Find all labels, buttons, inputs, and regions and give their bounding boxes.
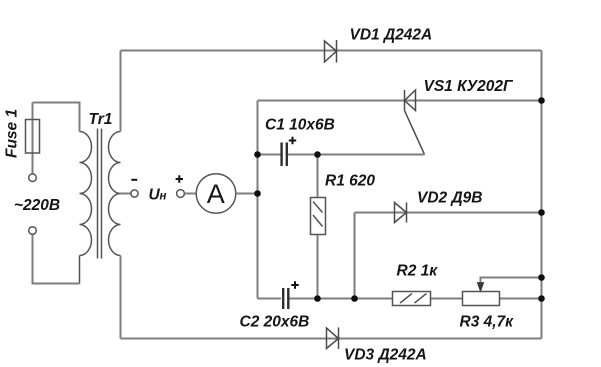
junction dot right rail / VD2 row [538, 209, 545, 216]
svg-text:VD1 Д242А: VD1 Д242А [350, 27, 433, 44]
wire plus terminal to ammeter [185, 193, 197, 195]
wire secondary bottom to bottom rail [120, 256, 122, 339]
thyristor VS1 [405, 90, 425, 155]
terminal plus [177, 190, 185, 198]
plus mark C2 [291, 281, 298, 288]
ammeter PA1 [196, 174, 236, 214]
wire ammeter to node [236, 193, 258, 195]
resistor R2 [393, 292, 431, 306]
junction dot right rail / wiper [538, 274, 545, 281]
plus mark at terminal [176, 175, 183, 182]
svg-text:VS1 КУ202Г: VS1 КУ202Г [424, 78, 514, 95]
right rail wire [541, 51, 543, 339]
wire fuse branch [33, 103, 80, 284]
wire secondary center tap [121, 193, 131, 195]
junction dot right rail / VS1 rail [538, 97, 545, 104]
minus mark at terminal [131, 179, 137, 181]
svg-text:VD3 Д242А: VD3 Д242А [344, 347, 427, 364]
fuse FU1 [26, 120, 40, 154]
potentiometer R3 wiper [481, 278, 542, 292]
junction dot R1 top [314, 151, 321, 158]
junction dot right rail / R3 [538, 295, 545, 302]
top rail wire [121, 50, 542, 52]
bottom rail wire [121, 338, 542, 340]
wire VD2 branch vertical [354, 213, 356, 299]
diode VD3 [327, 328, 339, 350]
transformer Tr1 secondary winding [109, 132, 121, 256]
svg-text:R1 620: R1 620 [325, 173, 375, 190]
junction dot R1 bottom [314, 295, 321, 302]
wire secondary top to top rail [120, 51, 122, 132]
left branch vertical wire [257, 101, 259, 299]
svg-text:н: н [160, 191, 167, 203]
svg-text:VD2 Д9В: VD2 Д9В [417, 190, 482, 207]
plus mark C1 [289, 137, 296, 144]
wire C1 row and VS1 gate wire [258, 154, 425, 156]
potentiometer R3 wiper arrow [477, 283, 483, 292]
resistor R1 [317, 155, 319, 299]
svg-text:C1 10x6В: C1 10x6В [265, 117, 335, 134]
potentiometer R3 [463, 292, 500, 306]
svg-text:R2 1к: R2 1к [397, 263, 439, 280]
svg-text:Fuse 1: Fuse 1 [4, 109, 21, 158]
wire C2 row [258, 298, 542, 300]
junction dot ammeter node [254, 190, 261, 197]
terminal ~220V lower [29, 227, 37, 235]
terminal minus [131, 190, 138, 197]
junction dot VD2 branch bottom [351, 295, 358, 302]
transformer core [98, 129, 102, 259]
capacitor C2 [283, 288, 288, 309]
diode VD1 [325, 40, 337, 63]
thyristor rail wire [258, 100, 542, 102]
svg-text:A: A [207, 179, 225, 209]
transformer Tr1 primary winding [80, 132, 92, 284]
capacitor C1 [282, 143, 287, 167]
wire VS1 gate [405, 111, 425, 155]
terminal ~220V upper [29, 174, 37, 182]
svg-text:R3 4,7к: R3 4,7к [460, 314, 515, 331]
svg-text:~220B: ~220B [14, 197, 60, 214]
wire VD2 row [355, 212, 542, 214]
svg-text:Tr1: Tr1 [89, 111, 113, 128]
diode VD2 [395, 203, 407, 223]
junction dot C1 left [254, 151, 261, 158]
svg-text:C2 20x6В: C2 20x6В [240, 314, 310, 331]
